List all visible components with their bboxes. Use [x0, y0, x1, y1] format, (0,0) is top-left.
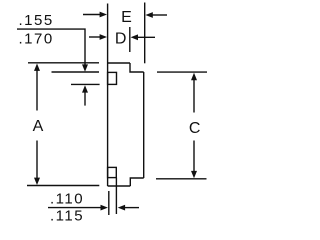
- body bottom step: [130, 178, 143, 186]
- label A: [33, 118, 44, 135]
- dimension text .155/.170: [19, 12, 54, 48]
- dimension A arrow down: [36, 141, 38, 179]
- leader arrowhead down at lead-stub top line: [82, 64, 88, 71]
- svg-text:.155: .155: [19, 12, 54, 29]
- svg-text:E: E: [121, 9, 132, 26]
- svg-text:.115: .115: [50, 208, 84, 225]
- dimension D left arrow: [89, 36, 101, 38]
- svg-text:A: A: [33, 118, 44, 135]
- body bottom edge: [108, 185, 131, 187]
- body right face: [143, 72, 145, 178]
- label E: [121, 9, 132, 26]
- leader line from .155/.170 fraction bar: [17, 29, 85, 65]
- reference line body bottom (A bottom): [27, 185, 99, 187]
- up arrow at lead stub bottom: [82, 85, 88, 92]
- reference line body top left (A top): [28, 62, 99, 64]
- dimension C arrow down: [193, 141, 195, 172]
- fraction bar / left arrow of .110 dimension: [48, 207, 101, 209]
- extension line D (body top step): [129, 27, 131, 52]
- label C: [189, 120, 201, 137]
- reference line C bottom: [156, 178, 207, 180]
- reference line C top: [157, 71, 207, 73]
- svg-text:.170: .170: [19, 31, 54, 48]
- body top step: [130, 63, 144, 72]
- lead stub top: [108, 72, 117, 84]
- dimension A arrow up: [34, 64, 40, 71]
- lead left edge: [108, 191, 110, 215]
- dimension E right arrow: [145, 12, 152, 18]
- reference line lead stub bottom: [71, 83, 100, 85]
- dimension D right arrow: [131, 34, 138, 40]
- right arrow of .110 dimension: [118, 205, 125, 211]
- body top edge: [108, 62, 130, 64]
- lead right edge: [115, 178, 117, 214]
- svg-text:D: D: [115, 31, 127, 48]
- extension line E right: [144, 3, 146, 64]
- reference line lead stub top: [52, 71, 100, 73]
- svg-text:.110: .110: [50, 191, 84, 208]
- label D: [115, 31, 127, 48]
- dimension text .110/.115: [50, 191, 84, 225]
- lead stub bottom: [108, 167, 117, 177]
- dimension E left arrow: [83, 14, 101, 16]
- svg-text:C: C: [189, 120, 201, 137]
- dimension C arrow up: [191, 73, 197, 80]
- extension line left face / body left edge: [107, 4, 109, 187]
